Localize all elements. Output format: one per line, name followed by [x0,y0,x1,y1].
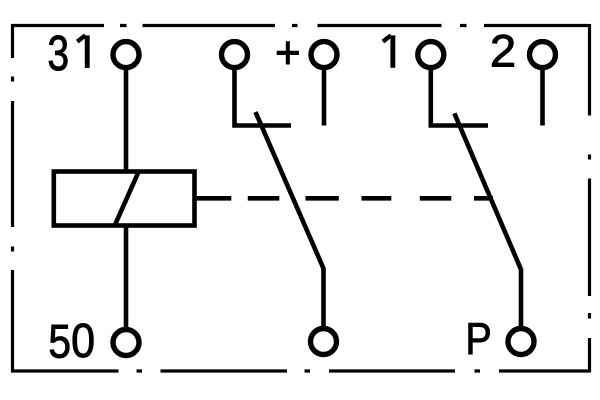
wire coil to terminal 50 [124,226,129,330]
enclosure border left [11,24,14,373]
switch S1 bottom terminal [311,329,337,355]
switch S1 fixed contact wire [235,68,292,126]
svg-text:+: + [275,28,301,78]
svg-text:3: 3 [48,27,70,82]
mechanical link dashed line [195,196,494,201]
wire terminal 2 stub [540,68,545,126]
wire terminal + stub [322,68,327,126]
label 50 [48,313,95,368]
switch S2 fixed contact wire [431,68,488,126]
switch S1 top terminal [222,42,248,68]
coil diagonal [115,172,139,226]
switch S2 lever [454,113,521,328]
terminal 50 [113,330,139,356]
terminal 31 [113,42,139,68]
svg-text:5: 5 [48,315,71,368]
relay coil K1 [54,172,195,226]
label 31 [48,27,88,82]
enclosure border bottom [11,369,589,372]
terminal + [311,42,337,68]
label 1 [383,35,393,68]
terminal 2 [530,42,556,68]
svg-text:0: 0 [71,313,95,368]
wire terminal 31 to coil [124,68,129,172]
svg-text:P: P [465,314,491,364]
enclosure border top [11,24,589,27]
terminal P [508,329,534,355]
terminal 1 [418,42,444,68]
svg-text:2: 2 [490,25,516,76]
switch S1 lever [256,112,324,329]
enclosure border right [588,24,591,373]
